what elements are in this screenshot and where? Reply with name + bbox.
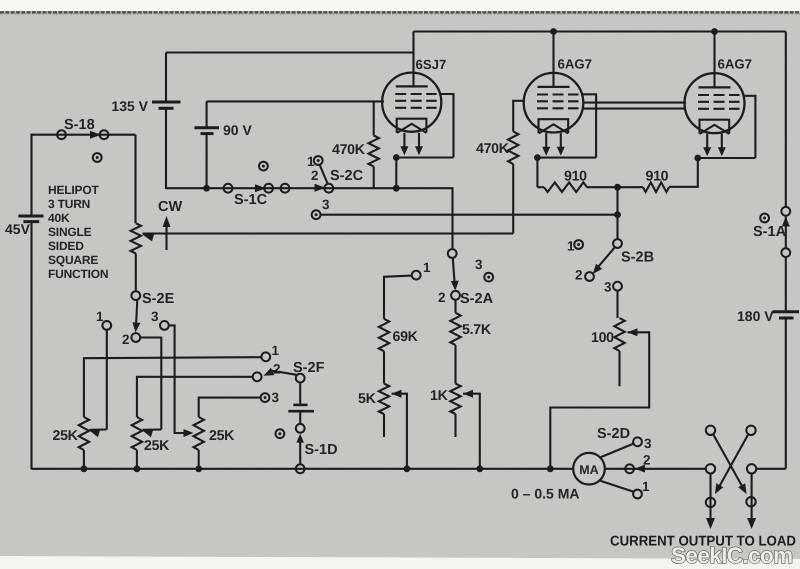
wire 25K-2 bottom — [136, 450, 138, 469]
output lead right — [751, 474, 753, 522]
switch S-1A top circle — [781, 207, 790, 216]
switch S-1C arrow — [255, 184, 266, 192]
wire grid bus y215 — [321, 214, 618, 216]
meter MA — [573, 453, 605, 485]
wire output to rail — [756, 468, 786, 470]
pot helipot wiper arrow — [143, 234, 155, 242]
svg-text:S-2E: S-2E — [142, 291, 175, 307]
switch S-2B arrow — [593, 264, 603, 274]
switch S-2D contact 1 — [633, 490, 642, 499]
svg-text:SQUARE: SQUARE — [48, 253, 98, 267]
node 5K return junction — [404, 465, 411, 472]
switch S-2E contact 3 — [160, 321, 169, 330]
wire capacitor to S-1D — [299, 411, 301, 424]
potentiometer 25K second — [132, 417, 142, 450]
node V1 cathode junction — [393, 154, 400, 161]
potentiometer 100 — [614, 318, 624, 351]
switch S-2F contact 3 — [261, 393, 270, 402]
svg-text:90 V: 90 V — [223, 122, 252, 138]
svg-text:SIDED: SIDED — [48, 239, 84, 253]
switch S-2E contact 2 — [131, 333, 140, 342]
switch S-1D bottom circle — [296, 464, 305, 473]
wire V3 cathode bottom — [698, 157, 756, 159]
wire 100 stub — [618, 351, 620, 386]
svg-text:45V: 45V — [5, 221, 31, 237]
svg-text:1: 1 — [423, 260, 431, 275]
wire tube1 plate lead — [412, 32, 414, 88]
wire top B+ bus L1 — [414, 30, 786, 32]
output switch bottom-left terminal — [706, 498, 715, 507]
switch S-2D contact 3 — [633, 437, 642, 446]
svg-text:135 V: 135 V — [111, 98, 148, 114]
switch S-1A open contact — [760, 214, 769, 223]
switch S-2D arrow — [635, 465, 645, 473]
potentiometer HELIPOT 40K — [131, 223, 141, 253]
switch S-2F arrow — [264, 368, 275, 376]
svg-text:5.7K: 5.7K — [462, 322, 492, 338]
wire main bus y188 — [166, 188, 453, 249]
pot 100 wiper arrow — [628, 328, 638, 336]
svg-text:FUNCTION: FUNCTION — [48, 267, 108, 281]
wire 910 left lead — [537, 186, 544, 188]
svg-text:0 – 0.5 MA: 0 – 0.5 MA — [511, 486, 579, 502]
node tube3 plate junction — [711, 28, 718, 35]
output cross wire B — [717, 434, 748, 490]
svg-text:3: 3 — [475, 257, 483, 272]
switch S-1C open contact — [259, 162, 268, 171]
svg-text:3: 3 — [604, 280, 612, 295]
wire V2 suppressor stub — [583, 94, 597, 157]
wire helipot bottom lead — [135, 253, 137, 291]
output cross wire A — [713, 434, 744, 490]
svg-text:HELIPOT: HELIPOT — [48, 183, 99, 197]
wire rail below 180V — [785, 318, 787, 469]
svg-text:180 V: 180 V — [737, 308, 774, 324]
output switch mid-left terminal — [706, 464, 715, 473]
switch S-2B contact 2 — [585, 272, 594, 281]
node tube2 plate junction — [550, 28, 557, 35]
pot 1K wiper arrow — [463, 390, 473, 398]
resistor 910 first — [544, 182, 587, 192]
resistor 69K — [379, 319, 389, 351]
wire right rail upper — [785, 32, 787, 209]
svg-text:S-2A: S-2A — [460, 291, 494, 307]
switch S-1B terminal A — [57, 130, 66, 139]
switch S-2A arm — [453, 258, 455, 286]
wire plate line L2 to 135V — [166, 51, 414, 53]
switch S-1C terminal A — [224, 184, 233, 193]
svg-text:S-2B: S-2B — [621, 250, 654, 266]
capacitor C1 — [293, 404, 307, 407]
switch S-2F contact 2 — [253, 372, 262, 381]
wire 5K stub — [383, 414, 385, 437]
switch S-2C contact 3 — [312, 210, 321, 219]
potentiometer 25K third — [194, 417, 204, 450]
battery 135V — [152, 101, 181, 104]
wire S-2A-2 to 5.7K — [454, 300, 456, 313]
svg-text:SeekIC.com: SeekIC.com — [671, 543, 793, 568]
svg-text:5K: 5K — [358, 391, 377, 407]
switch S-2A contact 3 — [484, 273, 493, 282]
wire pot2 top H2 — [137, 377, 253, 417]
battery 180V — [773, 310, 800, 313]
wire S2E-3 to pot3 wiper — [169, 325, 185, 433]
switch S-2F contact 1 — [261, 352, 270, 361]
switch S-1D top circle — [296, 424, 305, 433]
wire V1 suppressor stub — [441, 94, 454, 158]
wire pot3 top H3 — [199, 398, 261, 417]
switch S-2B common — [613, 239, 622, 248]
battery 90V — [195, 126, 220, 129]
wire 69K to 5K — [383, 351, 385, 383]
potentiometer 5K — [379, 384, 389, 414]
potentiometer 1K — [450, 384, 460, 414]
svg-text:910: 910 — [564, 169, 587, 185]
wire rail to 180V — [785, 257, 787, 310]
switch S-2D arm1 — [600, 481, 634, 492]
switch S-2D contact 2 — [625, 464, 634, 473]
svg-text:25K: 25K — [144, 438, 170, 454]
wire 100 wiper return — [550, 332, 649, 469]
resistor 470K first — [369, 136, 379, 167]
switch S-1C terminal C — [281, 184, 290, 193]
switch S-2F common — [296, 374, 305, 383]
wire 1K stub — [454, 414, 456, 437]
wire V2-V3 grid link lower — [583, 108, 687, 110]
wire grid line 90V to V1 — [207, 100, 384, 102]
wire V3 suppressor stub — [744, 96, 755, 158]
wire 25K-1 bottom — [83, 450, 85, 469]
wire V2 cathode drop — [536, 158, 538, 188]
switch S-1B arrow — [90, 131, 101, 139]
switch S-1A arrow — [782, 217, 790, 227]
wire S2E-2 to pot2 wiper — [140, 338, 161, 430]
wire 90V bottom lead — [206, 134, 208, 189]
switch S-2D arm3 — [600, 444, 634, 458]
svg-text:6AG7: 6AG7 — [718, 57, 752, 72]
svg-text:2: 2 — [643, 453, 651, 468]
wire S-1A arm — [785, 215, 787, 248]
wire 910 mid — [587, 186, 643, 188]
wire 25K-3 bottom — [198, 450, 200, 469]
node 910 midpoint — [614, 184, 621, 191]
svg-text:1: 1 — [272, 343, 280, 358]
potentiometer 25K first — [79, 417, 89, 450]
switch S-2C contact 1 — [314, 156, 323, 165]
switch S-2C contact 2 — [324, 184, 333, 193]
node 100 return junction — [547, 465, 554, 472]
output switch top-right terminal — [746, 426, 755, 435]
switch S-2E common — [131, 291, 140, 300]
svg-text:2: 2 — [438, 290, 446, 305]
switch S-2C arm — [320, 165, 328, 185]
output switch top-left terminal — [706, 426, 715, 435]
svg-text:25K: 25K — [209, 428, 235, 444]
resistor 470K second — [508, 132, 518, 165]
svg-text:MA: MA — [579, 463, 598, 477]
white strip bottom page edge — [0, 556, 800, 569]
svg-text:S-1C: S-1C — [234, 192, 268, 208]
svg-text:S-2D: S-2D — [597, 426, 630, 442]
wire helipot top lead — [134, 135, 136, 224]
switch S-2C arrow — [315, 184, 326, 192]
wire 470K-1 top lead — [373, 101, 375, 135]
svg-text:3: 3 — [272, 390, 280, 405]
node 25K-2 junction — [134, 465, 141, 472]
svg-text:40K: 40K — [48, 211, 70, 225]
switch S-1C terminal B — [264, 184, 273, 193]
dark scan border line top — [0, 11, 800, 13]
switch S-2B contact 3 — [613, 282, 622, 291]
wire 90V top lead — [206, 101, 208, 126]
switch S-2A contact 1 — [412, 271, 421, 280]
wire V2-V3 grid link upper — [583, 102, 687, 104]
svg-text:1: 1 — [642, 479, 650, 494]
svg-text:6AG7: 6AG7 — [558, 57, 592, 72]
svg-text:S-1A: S-1A — [753, 224, 787, 240]
battery 45V — [18, 215, 43, 218]
switch S-2B contact 1 — [574, 240, 583, 249]
pot3 wiper arrow — [184, 429, 194, 437]
arrow CW direction — [165, 222, 167, 250]
wire V2 plate lead — [552, 32, 554, 88]
svg-text:2: 2 — [122, 332, 130, 347]
output switch bottom-right terminal — [746, 497, 755, 506]
wire S-2B to 100 pot — [616, 291, 618, 318]
wire meter to S-2D-2 — [605, 468, 706, 470]
tube V3 6AG7 — [685, 73, 745, 133]
svg-text:3: 3 — [322, 197, 330, 212]
wire V2 grid stub left — [513, 101, 525, 132]
switch S-2E arm — [136, 300, 137, 328]
wire pot1 top H1 — [84, 357, 262, 417]
svg-text:S-2F: S-2F — [293, 360, 325, 376]
switch S-1D arrow — [296, 434, 304, 443]
wire helipot wiper line y233 — [143, 232, 514, 234]
output lead left — [709, 474, 711, 522]
svg-text:69K: 69K — [393, 329, 419, 345]
svg-text:2: 2 — [311, 168, 319, 183]
switch S-2F arm — [271, 371, 297, 375]
wire 470K-1 bottom lead — [373, 167, 375, 190]
wire left rail bottom — [30, 222, 32, 470]
resistor 5.7K — [450, 313, 460, 345]
switch S-2A arrow — [451, 281, 459, 291]
wire V3 plate lead — [713, 32, 715, 88]
wire 135V top lead — [165, 53, 167, 101]
wire V1 cathode bottom — [396, 156, 453, 158]
pot1 wiper arrow — [90, 430, 101, 438]
node V2 cathode junction — [534, 154, 541, 161]
svg-text:1: 1 — [567, 239, 575, 254]
output switch mid-right terminal — [747, 464, 756, 473]
tube V1 6SJ7 — [382, 73, 441, 132]
node grid bus junction — [614, 211, 621, 218]
node 90V ground junction — [203, 185, 210, 192]
svg-text:470K: 470K — [332, 142, 366, 158]
tube V2 6AG7 — [524, 73, 584, 133]
node V1 cathode bus junction — [393, 185, 400, 192]
wire 910mid to S-2B — [616, 187, 618, 239]
wire V3 cathode drop — [669, 158, 698, 187]
svg-text:910: 910 — [646, 169, 669, 185]
node 25K-3 junction — [195, 465, 202, 472]
wire 1K wiper return — [463, 394, 480, 469]
svg-text:1: 1 — [307, 154, 315, 169]
svg-text:3 TURN: 3 TURN — [48, 197, 90, 211]
svg-text:1: 1 — [96, 309, 104, 324]
wire S-2A-1 to 69K — [384, 276, 412, 319]
wire bottom bus — [32, 468, 574, 470]
wire V2 cathode bottom — [537, 157, 596, 159]
switch S-2E arrow — [132, 322, 140, 332]
svg-text:470K: 470K — [476, 141, 510, 157]
white strip top page edge — [0, 0, 800, 11]
svg-text:S-1D: S-1D — [305, 442, 338, 458]
switch S-1B terminal B — [100, 130, 109, 139]
wire left rail top — [32, 135, 136, 216]
switch S-2A common — [448, 249, 457, 258]
svg-text:3: 3 — [644, 436, 652, 451]
svg-text:3: 3 — [151, 309, 159, 324]
node 25K-1 junction — [81, 465, 88, 472]
wire V1 cathode drop — [395, 158, 397, 189]
wire 5K wiper return — [392, 394, 407, 469]
node 1K return junction — [476, 465, 483, 472]
switch S-1A bottom circle — [781, 248, 790, 257]
wire S2E-1 to pot1 wiper — [106, 330, 108, 430]
svg-text:CW: CW — [158, 199, 182, 215]
wire 470K-2 bottom lead — [512, 164, 514, 234]
wire 135V bottom lead — [165, 108, 167, 189]
wire 5.7K to 1K — [454, 345, 456, 384]
svg-text:S-2C: S-2C — [330, 168, 364, 184]
svg-text:6SJ7: 6SJ7 — [416, 57, 447, 72]
svg-text:25K: 25K — [53, 428, 79, 444]
wire S-2F to capacitor — [299, 383, 301, 405]
pot 5K wiper arrow — [392, 390, 402, 398]
svg-text:2: 2 — [575, 268, 583, 283]
switch S-1B open contact — [93, 153, 102, 162]
pot2 wiper arrow — [143, 430, 154, 438]
svg-text:2: 2 — [273, 362, 281, 377]
wire S-1D arm — [299, 437, 301, 464]
svg-text:S-18: S-18 — [64, 117, 95, 133]
switch S-2E contact 1 — [102, 321, 111, 330]
resistor 910 second — [643, 182, 669, 192]
svg-text:SINGLE: SINGLE — [48, 225, 92, 239]
svg-text:100: 100 — [591, 330, 614, 346]
node V3 cathode junction — [694, 155, 701, 162]
switch S-1D open contact — [276, 429, 285, 438]
svg-text:1K: 1K — [430, 388, 449, 404]
switch S-2A contact 2 — [451, 291, 460, 300]
switch S-2B arm — [596, 247, 615, 270]
